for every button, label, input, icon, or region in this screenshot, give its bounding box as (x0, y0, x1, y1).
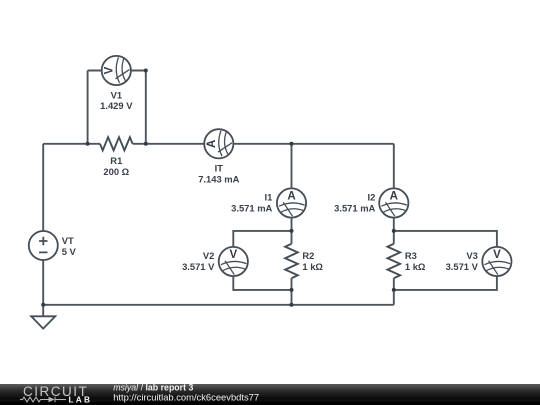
ammeter I2 (379, 188, 408, 217)
junction right of R1 (144, 142, 148, 146)
wire bottom rail (43, 304, 394, 306)
wire V1 branch right riser (145, 71, 147, 144)
svg-text:http://circuitlab.com/ck6ceevb: http://circuitlab.com/ck6ceevbdts77 (113, 392, 259, 403)
svg-text:LAB: LAB (69, 394, 91, 404)
svg-text:1.429 V: 1.429 V (100, 100, 133, 111)
svg-text:IT: IT (215, 162, 224, 173)
svg-text:5 V: 5 V (62, 246, 77, 257)
svg-text:3.571 mA: 3.571 mA (231, 203, 272, 214)
wire I2 branch upper (393, 144, 395, 244)
svg-text:V: V (493, 249, 501, 261)
junction bottom rail / ground (41, 303, 45, 307)
svg-text:A: A (390, 190, 398, 202)
svg-text:R1: R1 (110, 155, 122, 166)
wire I1 branch lower (291, 278, 293, 305)
wire I1 branch upper (291, 144, 293, 244)
voltmeter V1 (horizontal) (102, 56, 131, 85)
ground (31, 305, 55, 329)
voltage source VT (29, 231, 58, 260)
svg-text:VT: VT (62, 235, 74, 246)
junction at V1 right corner (144, 69, 148, 73)
wire V1 branch left riser (87, 71, 89, 144)
wire left rail (42, 144, 44, 305)
wire I2 branch lower (393, 278, 395, 305)
CircuitLab logo squiggle (resistor + diode) (20, 397, 66, 402)
resistor R2 (285, 244, 298, 278)
wire V3 loop (394, 231, 497, 290)
svg-text:V: V (104, 66, 116, 74)
junction R3 bottom (392, 288, 396, 292)
voltmeter V3 (482, 247, 511, 276)
junction R2 bottom (290, 288, 294, 292)
junction left of R1 (86, 142, 90, 146)
svg-text:V2: V2 (203, 250, 214, 261)
svg-text:A: A (206, 140, 218, 148)
wire top rail left segment (43, 143, 100, 145)
svg-text:3.571 V: 3.571 V (446, 261, 479, 272)
junction R3 top (392, 229, 396, 233)
svg-text:R2: R2 (302, 250, 314, 261)
svg-text:R3: R3 (405, 250, 417, 261)
svg-text:7.143 mA: 7.143 mA (198, 173, 239, 184)
junction R2 top (290, 229, 294, 233)
svg-text:V3: V3 (466, 250, 477, 261)
ammeter IT (horizontal) (204, 129, 233, 158)
voltmeter V2 (219, 247, 248, 276)
svg-text:1 kΩ: 1 kΩ (302, 261, 323, 272)
svg-text:I1: I1 (264, 192, 272, 203)
svg-text:3.571 V: 3.571 V (182, 261, 215, 272)
svg-text:V1: V1 (111, 89, 122, 100)
junction bottom rail / R2 branch (290, 303, 294, 307)
footer bar (0, 384, 540, 405)
ammeter I1 (277, 188, 306, 217)
svg-text:I2: I2 (367, 192, 375, 203)
svg-text:A: A (287, 190, 295, 202)
resistor R1 (100, 137, 133, 150)
junction top rail / I1 branch (290, 142, 294, 146)
svg-text:1 kΩ: 1 kΩ (405, 261, 426, 272)
wire V1 branch top (88, 70, 146, 72)
svg-text:3.571 mA: 3.571 mA (334, 203, 375, 214)
wire V2 loop (233, 231, 291, 290)
wire top rail right segment (133, 143, 394, 145)
svg-text:200 Ω: 200 Ω (103, 166, 129, 177)
resistor R3 (388, 244, 401, 278)
svg-text:V: V (229, 249, 237, 261)
